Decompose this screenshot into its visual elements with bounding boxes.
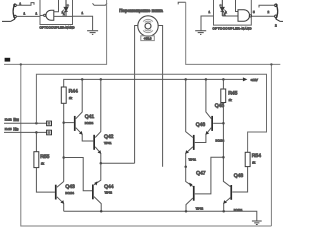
ground GND2 xyxy=(195,31,206,35)
svg-text:R44: R44 xyxy=(69,89,78,95)
svg-text:Нз: Нз xyxy=(13,126,18,131)
wire left border xyxy=(21,64,272,226)
motor M1 xyxy=(138,16,158,36)
U2 LED star xyxy=(219,4,222,7)
port Nz xyxy=(47,130,52,135)
wire Vp net loop xyxy=(36,74,266,152)
svg-text:1: 1 xyxy=(82,11,84,15)
U1 LED star xyxy=(66,4,69,7)
svg-text:1k: 1k xyxy=(252,160,256,164)
wire Q44 emitter feed xyxy=(94,163,101,185)
svg-text:Q41: Q41 xyxy=(85,114,95,120)
wire Q44 base xyxy=(64,158,92,191)
svg-text:Q47: Q47 xyxy=(196,171,206,177)
wire gnd net left xyxy=(4,0,107,64)
wire Vp input xyxy=(4,122,47,124)
wire R45 chain xyxy=(222,79,224,181)
transistor Q43 xyxy=(55,182,64,212)
motor value box xyxy=(141,36,155,41)
svg-text:2: 2 xyxy=(275,24,277,28)
svg-text:Ю.22: Ю.22 xyxy=(5,118,12,122)
svg-text:1: 1 xyxy=(24,12,26,16)
resistor R45 xyxy=(221,89,226,103)
svg-text:Q45: Q45 xyxy=(215,103,225,109)
ground GND3 xyxy=(252,221,262,225)
wire motor left terminal xyxy=(135,26,138,164)
U1 gate top pin xyxy=(54,0,59,12)
svg-text:Вп: Вп xyxy=(13,117,19,122)
transistor Q45 xyxy=(195,79,213,142)
svg-text:Q48: Q48 xyxy=(234,173,244,179)
cut wire stub A xyxy=(93,3,108,5)
svg-text:BC184: BC184 xyxy=(65,191,74,195)
wire gnd net right xyxy=(186,2,281,64)
wire output left node xyxy=(101,162,135,164)
transistor Q41 xyxy=(74,79,93,141)
svg-text:2: 2 xyxy=(268,10,270,14)
U1 light arrows xyxy=(61,10,65,16)
node square terminal xyxy=(5,58,11,62)
wire Q47 emitter feed xyxy=(186,167,193,187)
U1 NAND gate (mirrored) xyxy=(46,10,54,20)
bus junction dots xyxy=(81,78,84,81)
svg-text:R55: R55 xyxy=(40,154,49,160)
svg-text:Q46: Q46 xyxy=(196,122,206,128)
svg-text:TIP32: TIP32 xyxy=(196,207,204,211)
svg-text:BC184: BC184 xyxy=(234,208,243,212)
wire R44 chain down xyxy=(63,103,65,181)
svg-text:Q42: Q42 xyxy=(104,134,114,140)
svg-text:1k: 1k xyxy=(69,96,73,100)
wire bus +12V xyxy=(64,79,243,87)
wire Nz input xyxy=(4,131,47,133)
svg-text:Перемещение ножа: Перемещение ножа xyxy=(119,8,163,13)
svg-text:1: 1 xyxy=(36,12,38,16)
svg-text:R54: R54 xyxy=(252,153,261,159)
svg-text:R45: R45 xyxy=(228,91,237,97)
wire Q47 base xyxy=(195,157,224,194)
wire Nz net down xyxy=(35,132,37,151)
svg-text:BC184: BC184 xyxy=(85,121,94,125)
svg-text:1: 1 xyxy=(209,10,211,14)
svg-text:TIP31: TIP31 xyxy=(104,141,112,145)
+12V arrow xyxy=(243,77,248,81)
U2 LED D2 xyxy=(221,0,225,16)
connector J1 left xyxy=(2,4,16,22)
U2 light arrows xyxy=(223,10,227,16)
svg-text:5: 5 xyxy=(253,10,255,14)
transistor Q47 xyxy=(186,186,195,211)
connector J2 right xyxy=(275,4,283,22)
resistor R55 xyxy=(34,152,39,168)
optocoupler U2 box xyxy=(214,0,252,25)
wire Q48 base to R54 xyxy=(232,167,247,192)
resistor R54 xyxy=(245,152,250,166)
svg-text:OPTOCOUPLER-NAND: OPTOCOUPLER-NAND xyxy=(40,26,76,30)
U1 photodiode wire xyxy=(54,15,73,17)
svg-text:TIP31: TIP31 xyxy=(189,158,197,162)
wire output right node xyxy=(184,166,187,169)
port Vp xyxy=(47,121,52,126)
svg-text:OPTOCOUPLER-NAND: OPTOCOUPLER-NAND xyxy=(213,26,253,30)
svg-text:Q44: Q44 xyxy=(104,184,114,190)
resistor R44 xyxy=(61,87,66,103)
wire connector pin1 hook xyxy=(16,3,34,6)
wire R55 to Q43 base xyxy=(36,168,55,193)
transistor Q48 xyxy=(223,181,232,211)
svg-text:Ю.25: Ю.25 xyxy=(5,127,12,131)
transistor Q44 xyxy=(92,185,101,212)
optocoupler U1 box xyxy=(40,0,73,25)
wire connector J2 pin1 hook xyxy=(259,5,275,7)
svg-text:1k: 1k xyxy=(41,162,45,166)
svg-text:BC184: BC184 xyxy=(216,138,225,142)
svg-text:+88.8: +88.8 xyxy=(144,37,152,41)
ground GND1 xyxy=(87,31,98,35)
wire U2 output to connector xyxy=(252,15,275,17)
transistor Q46 xyxy=(185,79,194,166)
svg-text:+12V: +12V xyxy=(251,78,259,82)
transistor Q42 xyxy=(93,79,101,163)
wire right border xyxy=(270,64,272,226)
wire Q45 base xyxy=(213,122,223,124)
wire U1 output to ground xyxy=(73,16,93,30)
svg-text:Q43: Q43 xyxy=(65,184,75,190)
U2 gate top pin xyxy=(236,0,239,12)
svg-text:1k: 1k xyxy=(229,98,233,102)
wire right opto input to ground xyxy=(201,16,214,31)
U2 photodiode wire xyxy=(222,15,238,17)
U2 NAND gate xyxy=(238,10,250,22)
wire emitter rail xyxy=(64,211,257,220)
wire Q41 base xyxy=(64,122,74,124)
U1 LED D1 xyxy=(64,0,68,16)
cut wire stub B xyxy=(178,2,186,4)
wire connector pin2 to opto box xyxy=(16,15,40,17)
wire motor right terminal xyxy=(158,26,162,167)
svg-text:TIP32: TIP32 xyxy=(105,190,113,194)
